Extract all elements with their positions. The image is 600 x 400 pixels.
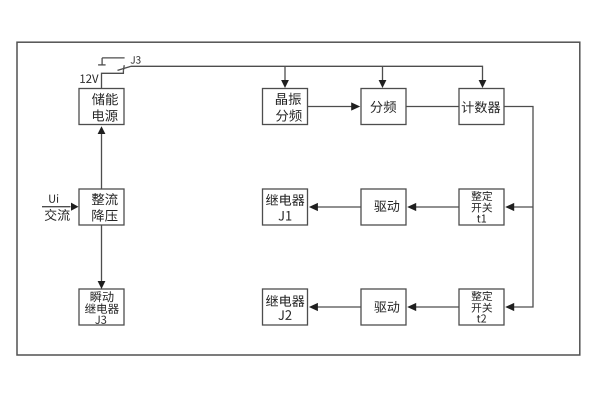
block: relay J2 继电器: [263, 289, 308, 325]
block: counter 计数器: [459, 89, 504, 125]
label Ui: [49, 194, 58, 203]
wire: 整定开关t1 to 驱动: [416, 206, 459, 208]
wire: 计数器 output to setting switches: [504, 107, 533, 308]
arrowhead into 整定开关t2 right: [505, 303, 514, 311]
arrowhead into 驱动1 right: [407, 203, 416, 211]
arrowhead into 分频 top: [379, 80, 387, 88]
block: driver 驱动 (row 1): [361, 189, 406, 225]
wire: 整流降压 to 储能电源: [101, 134, 103, 190]
arrowhead into 储能电源 bottom: [98, 126, 106, 134]
wire: branch down to 分频: [382, 66, 384, 80]
arrowhead into 整定开关t1 right: [505, 203, 514, 211]
wire: 整定开关t2 to 驱动: [416, 306, 459, 308]
relay contact J3 (switch symbol): [98, 58, 131, 71]
wire: AC input line: [42, 206, 71, 208]
arrowhead into 分频 left: [351, 102, 360, 110]
wire: branch down to 晶振分频: [284, 66, 286, 80]
wire: 晶振分频 to 分频: [308, 106, 353, 108]
wire: branch to 整定开关t1: [514, 206, 533, 208]
block: driver 驱动 (row 2): [361, 289, 406, 325]
wire: 整流降压 to 瞬动继电器: [101, 225, 103, 282]
arrowhead into 继电器J1 right: [309, 203, 318, 211]
block: setting switch 整定开关 t2: [459, 289, 504, 325]
wire: 驱动 to 继电器J1: [317, 206, 361, 208]
block: setting switch 整定开关 t1: [459, 189, 504, 225]
block: relay J1 继电器: [263, 189, 308, 225]
wire: 驱动 to 继电器J2: [317, 306, 361, 308]
arrowhead into 瞬动继电器 top: [98, 281, 106, 289]
label 12V: [80, 74, 98, 83]
arrowhead into 整流降压 left: [71, 203, 79, 211]
wire: 分频 to 计数器: [406, 106, 459, 108]
block: instantaneous relay 瞬动继电器 J3: [79, 289, 124, 325]
arrowhead into 计数器 top: [479, 80, 487, 88]
block: crystal oscillator divider 晶振分频: [263, 89, 308, 125]
block: storage power supply 储能电源: [79, 89, 124, 125]
wire: 储能电源 to contact: [102, 70, 124, 88]
block: frequency divider 分频: [361, 89, 406, 125]
wire: top supply bus: [131, 66, 483, 80]
arrowhead into 驱动2 right: [407, 303, 416, 311]
label J3: [131, 56, 141, 64]
label 交流 (AC): [45, 209, 70, 221]
arrowhead into 晶振分频 top: [281, 80, 289, 88]
arrowhead into 继电器J2 right: [309, 303, 318, 311]
block: rectifier step-down 整流降压: [79, 189, 124, 225]
